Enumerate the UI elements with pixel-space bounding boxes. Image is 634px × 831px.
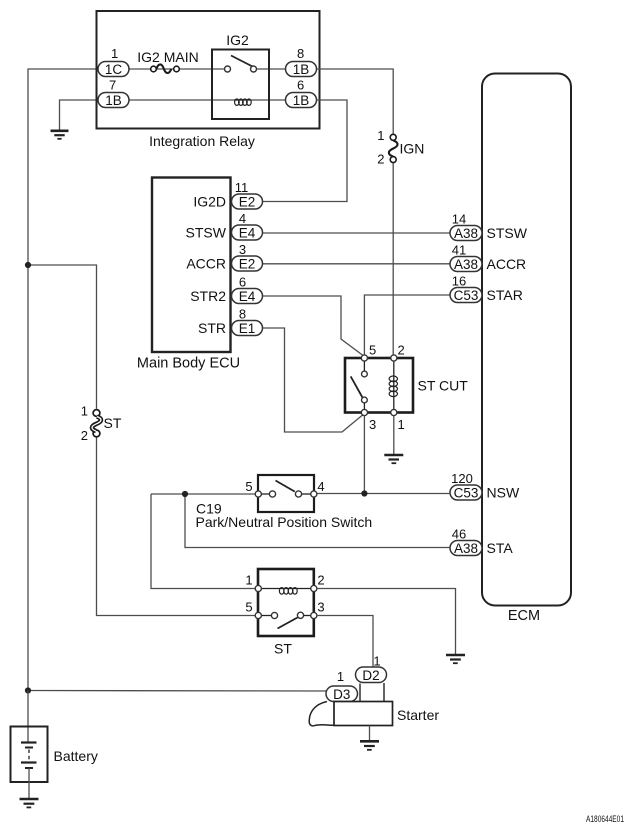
node: junction battery/ST fuse [25,262,31,268]
svg-text:2: 2 [377,152,384,167]
pin 8 1B [286,46,317,77]
svg-text:1: 1 [111,46,118,61]
wire: IG2 switch to 1B pin8 [257,68,286,70]
node: junction STA [182,491,188,497]
pin 6 1B [286,78,317,109]
svg-text:6: 6 [297,78,304,93]
svg-text:5: 5 [369,343,376,358]
wire: 1C to IG2 switch [129,68,225,70]
svg-text:IG2 MAIN: IG2 MAIN [137,49,198,65]
svg-text:3: 3 [239,242,246,257]
wire: ST pin2 right to ground [317,589,456,655]
svg-text:NSW: NSW [487,485,520,501]
pin 7 1B [98,78,129,109]
ECM pin 14 A38 STSW [450,212,528,242]
wire: down to ST relay pin1 [151,494,255,589]
svg-text:16: 16 [452,274,466,289]
wire: ST pin3 right down to D2 [317,616,373,667]
svg-text:D3: D3 [333,687,350,702]
svg-text:Starter: Starter [397,707,439,723]
ECU pin ACCR E2 [186,242,262,272]
svg-text:1: 1 [245,573,252,588]
starter pin D2 [356,654,387,683]
svg-text:2: 2 [317,573,324,588]
svg-text:ACCR: ACCR [487,256,527,272]
svg-text:ACCR: ACCR [186,256,226,272]
svg-text:1B: 1B [293,93,310,108]
svg-text:STA: STA [487,540,514,556]
svg-text:4: 4 [317,479,324,494]
svg-text:1: 1 [398,417,405,432]
svg-text:1: 1 [337,669,344,684]
wire: battery branch to ST fuse down to ST relay pin5 [28,265,97,409]
wire: pin8 1B right, down to IGN fuse and ST CUT pin2 [317,69,394,135]
svg-text:14: 14 [452,212,466,227]
svg-text:STSW: STSW [186,225,227,241]
svg-text:120: 120 [451,471,473,486]
ECU pin STR2 E4 [190,275,262,305]
ECM pin 46 A38 STA [450,527,513,557]
switch C19 Park/Neutral Position Switch [196,475,373,530]
Main Body ECU box [152,178,231,353]
node: junction NSW [361,490,367,496]
svg-text:STAR: STAR [487,287,523,303]
fuse ST [81,404,122,444]
ECU pin IG2D E2 [193,180,262,210]
ground (ST CUT) [384,455,403,463]
svg-text:Battery: Battery [54,748,98,764]
ECM pin 16 C53 STAR [450,274,523,304]
svg-text:Park/Neutral Position Switch: Park/Neutral Position Switch [196,514,373,530]
svg-text:IG2D: IG2D [193,194,226,210]
relay ST [245,569,324,657]
svg-text:41: 41 [452,243,466,258]
fuse IG2 MAIN [137,49,198,73]
svg-text:6: 6 [239,275,246,290]
svg-text:E2: E2 [239,257,256,272]
battery [11,727,98,799]
ECM box [482,74,571,606]
svg-text:3: 3 [369,417,376,432]
node: junction battery [25,687,31,693]
svg-text:E2: E2 [239,195,256,210]
starter pin D3 [326,669,358,702]
ground (battery) [20,799,39,807]
svg-text:Main Body ECU: Main Body ECU [137,356,240,372]
wire: battery vertical [27,691,29,743]
fuse IGN [377,128,424,167]
ground (ST relay) [446,655,465,663]
svg-text:1B: 1B [105,93,122,108]
svg-text:ECM: ECM [508,608,540,624]
wire: STR2 to ST CUT pin5 [263,296,364,357]
wire: ST CUT pin3 down to NSW junction [363,416,365,494]
svg-text:IG2: IG2 [226,32,249,48]
svg-text:5: 5 [245,600,252,615]
svg-text:5: 5 [245,479,252,494]
wire: 1B pin7 to coil to 1B pin6 [129,99,234,101]
svg-text:A180644E01: A180644E01 [586,814,624,824]
Integration Relay box [97,11,320,129]
svg-text:1C: 1C [105,62,123,77]
starter body [309,702,439,726]
svg-text:1: 1 [377,128,384,143]
svg-text:ST: ST [104,415,122,431]
svg-text:IGN: IGN [400,141,425,157]
svg-text:C53: C53 [454,288,479,303]
ECU pin STSW E4 [186,211,263,241]
wire: 1B pin7 to ground [60,100,99,130]
svg-text:8: 8 [239,307,246,322]
svg-text:Integration Relay: Integration Relay [149,133,255,149]
wire: ST CUT pin1 to ground [393,416,395,455]
wire: pin6 1B right, down, to ECU IG2D E2 [263,100,347,202]
wire: STR E1 to ST CUT pin3 [263,328,364,432]
svg-text:STR2: STR2 [190,288,226,304]
relay IG2 (contact + coil) [212,32,269,119]
svg-text:A38: A38 [454,541,478,556]
svg-text:4: 4 [239,211,246,226]
svg-text:1B: 1B [293,62,310,77]
svg-text:ST CUT: ST CUT [418,378,469,394]
svg-text:STR: STR [198,320,226,336]
ground (starter) [360,741,379,750]
wire: P/N pin4 to C53 NSW [317,493,450,495]
svg-text:3: 3 [317,600,324,615]
wire: P/N pin5 left [151,493,255,495]
svg-text:E4: E4 [239,289,256,304]
svg-text:2: 2 [398,343,405,358]
svg-text:A38: A38 [454,257,478,272]
svg-text:ST: ST [274,641,292,657]
ECM pin 41 A38 ACCR [450,243,526,273]
wire: battery feed vertical from 1C down left side [28,69,98,691]
ECU pin STR E1 [198,307,263,337]
wire: battery junction to D3 [28,690,327,693]
svg-text:46: 46 [452,527,466,542]
wire: junction down to A38 STA [185,494,450,548]
svg-text:1: 1 [81,404,88,419]
pin 1C [98,46,129,77]
svg-text:8: 8 [297,46,304,61]
svg-text:D2: D2 [362,668,379,683]
ground (integration relay) [51,131,69,139]
svg-text:C53: C53 [454,486,479,501]
ECM pin 120 C53 NSW [450,471,520,501]
connector below D2 [359,684,361,702]
wire: STSW row [263,232,450,234]
svg-text:E4: E4 [239,226,256,241]
wire: starter to ground [369,726,371,741]
svg-text:A38: A38 [454,226,478,241]
wire: ACCR row [263,263,450,265]
wire: STAR to ST CUT pin5 [364,295,450,355]
relay ST CUT [345,343,468,433]
svg-text:E1: E1 [239,321,256,336]
svg-text:STSW: STSW [487,225,528,241]
svg-text:11: 11 [235,180,249,195]
svg-text:2: 2 [81,428,88,443]
svg-text:7: 7 [109,78,116,93]
